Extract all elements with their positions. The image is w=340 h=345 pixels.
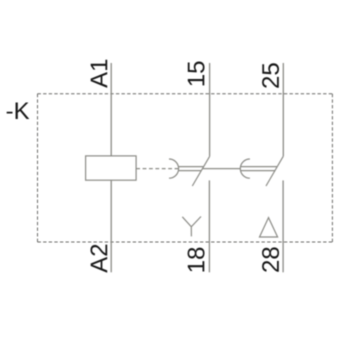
mechanical linkage (dashed actuator line from coil): [136, 168, 178, 170]
terminal label 28: [262, 247, 279, 271]
terminal label 25: [262, 63, 279, 87]
terminal label A1: [91, 60, 108, 88]
relay outline, right edge: [331, 94, 333, 242]
terminal label 18: [188, 248, 205, 272]
relay outline (dashed enclosure box), top edge: [38, 93, 333, 95]
wire A1 (top lead to coil): [110, 63, 112, 156]
contact 1 movable arm: [192, 156, 209, 186]
contact 1 function symbol (Y): [182, 217, 201, 237]
terminal label A2: [90, 245, 107, 273]
contact 1 twin lines: [178, 166, 203, 168]
wire 15 (top lead contact 1): [209, 63, 211, 156]
link wire between contacts: [203, 168, 241, 170]
contact 2 twin lines: [241, 166, 278, 168]
wire 18 (bottom lead contact 1): [208, 180, 210, 272]
contact 2 fork (twin-contact arc): [240, 159, 250, 178]
wire 25 (top lead contact 2): [282, 63, 284, 156]
wire 28 (bottom lead contact 2): [282, 180, 284, 272]
wire A2 (bottom lead from coil): [110, 180, 112, 272]
contact 2 function symbol (triangle): [260, 218, 278, 237]
coil K (rectangle): [86, 156, 137, 180]
contact 2 movable arm: [266, 156, 283, 186]
relay outline, left edge: [37, 94, 39, 242]
terminal label 15: [188, 62, 205, 86]
reference designator -K: [7, 102, 30, 119]
contact 1 fork (twin-contact arc): [169, 159, 179, 178]
relay outline, bottom edge: [38, 241, 333, 243]
